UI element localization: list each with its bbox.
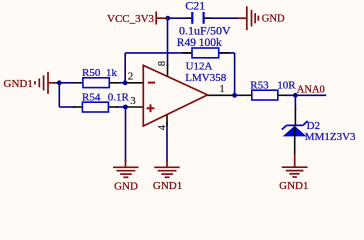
svg-text:C21: C21 [185,0,205,12]
svg-text:0.1R: 0.1R [108,92,130,104]
svg-text:R54: R54 [82,92,101,104]
svg-text:GND: GND [262,14,285,25]
svg-text:ANA0: ANA0 [297,85,325,96]
svg-text:0.1uF/50V: 0.1uF/50V [179,23,231,37]
svg-text:1: 1 [219,83,225,95]
svg-text:8: 8 [157,61,168,66]
svg-text:GND1: GND1 [279,180,308,192]
svg-text:GND1: GND1 [4,78,33,90]
svg-text:10R: 10R [277,80,296,92]
svg-text:100k: 100k [199,37,222,49]
svg-text:U12A: U12A [186,61,213,73]
svg-text:1k: 1k [106,67,118,79]
svg-text:3: 3 [130,95,136,107]
svg-text:2: 2 [128,71,134,83]
svg-text:VCC_3V3: VCC_3V3 [107,13,155,25]
svg-text:4: 4 [157,124,168,130]
svg-text:R53: R53 [250,80,269,92]
svg-text:R50: R50 [82,67,101,79]
svg-text:GND1: GND1 [153,180,182,192]
svg-text:R49: R49 [177,37,196,49]
svg-text:GND: GND [114,180,138,192]
svg-text:MM1Z3V3: MM1Z3V3 [305,131,356,143]
